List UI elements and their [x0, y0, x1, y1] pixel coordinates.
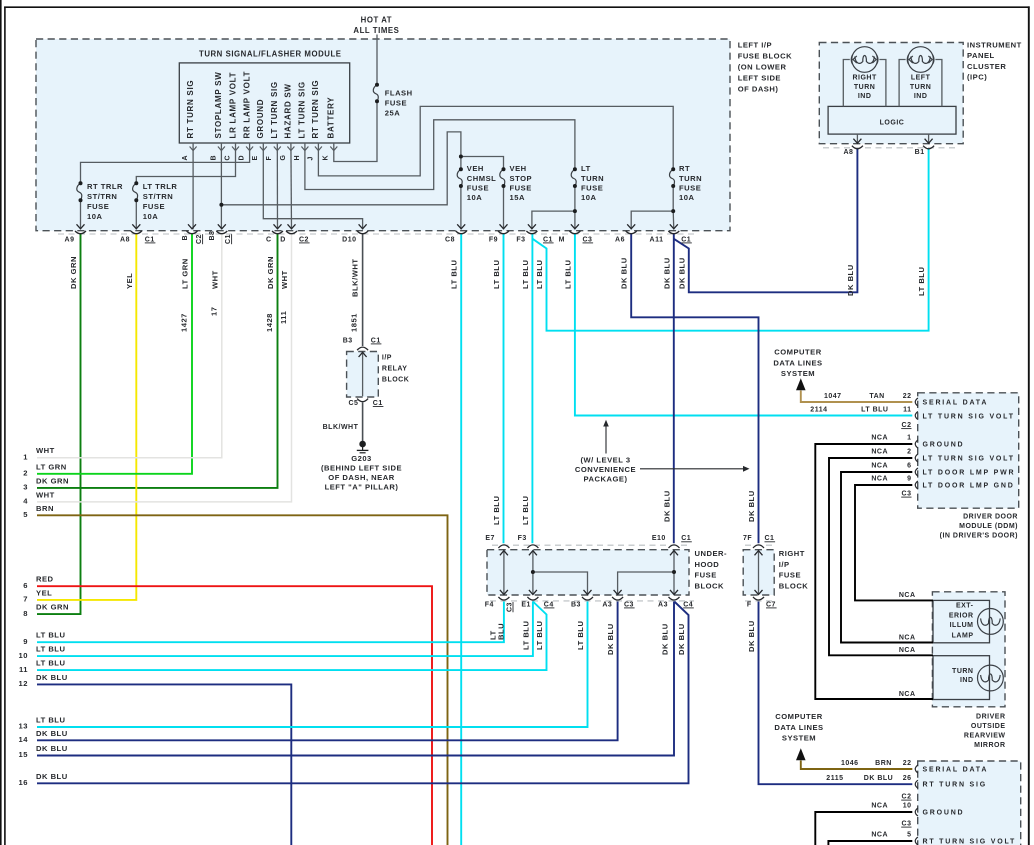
- svg-text:IND: IND: [858, 93, 872, 100]
- svg-text:C: C: [224, 155, 231, 161]
- svg-text:LT BLU: LT BLU: [861, 406, 888, 413]
- svg-text:RIGHT: RIGHT: [779, 549, 805, 558]
- svg-text:DK BLU: DK BLU: [661, 623, 670, 655]
- svg-text:SERIAL DATA: SERIAL DATA: [923, 767, 989, 774]
- svg-text:GROUND: GROUND: [923, 810, 965, 817]
- svg-text:DK BLU: DK BLU: [662, 257, 671, 289]
- svg-text:C4: C4: [544, 601, 554, 608]
- svg-text:10A: 10A: [143, 212, 158, 221]
- svg-text:A3: A3: [658, 601, 668, 608]
- svg-text:STOPLAMP SW: STOPLAMP SW: [214, 72, 223, 139]
- svg-text:111: 111: [279, 310, 288, 324]
- svg-text:2114: 2114: [810, 406, 827, 413]
- svg-text:DK BLU: DK BLU: [606, 623, 615, 655]
- svg-text:SYSTEM: SYSTEM: [782, 734, 816, 743]
- svg-text:NCA: NCA: [871, 434, 888, 441]
- svg-text:LT BLU: LT BLU: [576, 621, 585, 650]
- svg-text:C1: C1: [373, 400, 383, 407]
- svg-text:BRN: BRN: [36, 504, 54, 513]
- svg-text:BLU: BLU: [496, 623, 505, 640]
- svg-text:10: 10: [903, 802, 912, 809]
- svg-text:TURN: TURN: [854, 84, 875, 91]
- svg-text:OF DASH, NEAR: OF DASH, NEAR: [328, 473, 394, 482]
- svg-text:F4: F4: [485, 601, 494, 608]
- svg-text:LT TRLR: LT TRLR: [143, 182, 178, 191]
- svg-text:(IN DRIVER'S DOOR): (IN DRIVER'S DOOR): [940, 533, 1018, 540]
- svg-text:ST/TRN: ST/TRN: [143, 192, 173, 201]
- svg-text:EXT-: EXT-: [956, 603, 974, 610]
- svg-text:17: 17: [209, 307, 218, 316]
- svg-text:MIRROR: MIRROR: [974, 742, 1005, 749]
- svg-text:C1: C1: [681, 535, 691, 542]
- svg-text:2: 2: [907, 448, 911, 455]
- svg-text:5: 5: [907, 831, 911, 838]
- svg-text:11: 11: [19, 665, 28, 674]
- svg-text:FUSE: FUSE: [779, 571, 801, 580]
- svg-text:IND: IND: [960, 677, 974, 684]
- svg-text:TURN SIGNAL/FLASHER MODULE: TURN SIGNAL/FLASHER MODULE: [199, 50, 342, 59]
- svg-text:DK BLU: DK BLU: [36, 772, 68, 781]
- svg-text:VEH: VEH: [510, 164, 527, 173]
- svg-text:C1: C1: [225, 234, 232, 244]
- svg-text:GROUND: GROUND: [256, 99, 265, 139]
- svg-text:DK BLU: DK BLU: [663, 490, 672, 522]
- svg-text:LT BLU: LT BLU: [535, 621, 544, 650]
- svg-text:DRIVER: DRIVER: [976, 713, 1005, 720]
- svg-text:OF DASH): OF DASH): [738, 85, 779, 94]
- svg-text:FUSE: FUSE: [87, 202, 109, 211]
- svg-text:LT TURN SIG: LT TURN SIG: [298, 81, 307, 138]
- svg-text:DK BLU: DK BLU: [36, 673, 68, 682]
- svg-text:FUSE: FUSE: [467, 184, 489, 193]
- svg-text:HAZARD SW: HAZARD SW: [284, 83, 293, 138]
- svg-text:C3: C3: [507, 602, 514, 612]
- svg-text:A6: A6: [615, 236, 625, 243]
- svg-text:DRIVER DOOR: DRIVER DOOR: [963, 513, 1018, 520]
- svg-text:FUSE: FUSE: [581, 184, 603, 193]
- svg-text:BLOCK: BLOCK: [695, 581, 725, 590]
- svg-text:BRN: BRN: [875, 760, 892, 767]
- svg-text:BLK/WHT: BLK/WHT: [323, 424, 359, 431]
- svg-text:DK BLU: DK BLU: [864, 775, 893, 782]
- svg-text:(BEHIND LEFT SIDE: (BEHIND LEFT SIDE: [321, 464, 402, 473]
- svg-text:HOT AT: HOT AT: [361, 16, 392, 25]
- svg-text:LR LAMP VOLT: LR LAMP VOLT: [228, 72, 237, 139]
- svg-text:4: 4: [23, 497, 28, 506]
- svg-text:DATA LINES: DATA LINES: [774, 723, 823, 732]
- svg-text:UNDER-: UNDER-: [695, 549, 728, 558]
- svg-text:D10: D10: [342, 236, 356, 243]
- svg-text:WHT: WHT: [36, 490, 55, 499]
- svg-text:TURN: TURN: [952, 668, 973, 675]
- svg-text:5: 5: [23, 510, 28, 519]
- svg-text:WHT: WHT: [210, 270, 219, 289]
- svg-text:NCA: NCA: [871, 462, 888, 469]
- svg-text:13: 13: [19, 722, 28, 731]
- svg-text:F: F: [266, 156, 273, 161]
- svg-text:NCA: NCA: [871, 475, 888, 482]
- svg-text:NCA: NCA: [899, 647, 916, 654]
- svg-text:J: J: [307, 156, 314, 160]
- svg-text:LT BLU: LT BLU: [563, 260, 572, 289]
- svg-text:1428: 1428: [265, 313, 274, 332]
- svg-text:LT BLU: LT BLU: [36, 659, 65, 668]
- svg-text:LT BLU: LT BLU: [521, 260, 530, 289]
- svg-text:B8: B8: [209, 231, 216, 241]
- svg-text:RIGHT: RIGHT: [852, 75, 877, 82]
- svg-text:F3: F3: [516, 236, 525, 243]
- svg-text:LEFT "A" PILLAR): LEFT "A" PILLAR): [325, 483, 399, 492]
- svg-text:PACKAGE): PACKAGE): [584, 475, 628, 484]
- svg-text:DK GRN: DK GRN: [36, 476, 69, 485]
- svg-text:C3: C3: [583, 236, 593, 243]
- svg-text:LT BLU: LT BLU: [492, 260, 501, 289]
- svg-text:C2: C2: [902, 422, 912, 429]
- svg-text:LEFT I/P: LEFT I/P: [738, 41, 772, 50]
- svg-text:A11: A11: [650, 236, 664, 243]
- svg-text:ILLUM: ILLUM: [950, 622, 974, 629]
- svg-text:NCA: NCA: [871, 448, 888, 455]
- svg-text:COMPUTER: COMPUTER: [775, 712, 822, 721]
- svg-text:A: A: [182, 155, 189, 161]
- svg-text:LT BLU: LT BLU: [450, 260, 459, 289]
- svg-text:2115: 2115: [826, 775, 843, 782]
- svg-text:CHMSL: CHMSL: [467, 174, 497, 183]
- svg-text:LT GRN: LT GRN: [36, 462, 67, 471]
- svg-text:FUSE: FUSE: [143, 202, 165, 211]
- svg-text:GROUND: GROUND: [923, 442, 965, 449]
- svg-text:10: 10: [19, 651, 28, 660]
- svg-text:C2: C2: [299, 236, 309, 243]
- svg-text:F: F: [747, 601, 752, 608]
- svg-text:10A: 10A: [581, 193, 596, 202]
- svg-text:9: 9: [907, 475, 911, 482]
- svg-text:E10: E10: [652, 535, 666, 542]
- svg-text:B1: B1: [915, 149, 925, 156]
- svg-text:NCA: NCA: [899, 592, 916, 599]
- svg-text:G203: G203: [351, 454, 372, 463]
- svg-text:12: 12: [19, 679, 28, 688]
- svg-text:1851: 1851: [349, 313, 358, 332]
- svg-text:NCA: NCA: [871, 802, 888, 809]
- svg-text:FUSE: FUSE: [679, 184, 701, 193]
- svg-text:FLASH: FLASH: [385, 89, 413, 98]
- svg-text:OUTSIDE: OUTSIDE: [971, 723, 1006, 730]
- svg-text:C1: C1: [681, 236, 691, 243]
- svg-text:ALL TIMES: ALL TIMES: [353, 26, 399, 35]
- svg-text:RED: RED: [36, 575, 54, 584]
- svg-text:9: 9: [23, 637, 28, 646]
- svg-text:DK BLU: DK BLU: [677, 257, 686, 289]
- svg-text:TURN: TURN: [581, 174, 604, 183]
- svg-text:2: 2: [23, 469, 28, 478]
- svg-text:DK BLU: DK BLU: [36, 744, 68, 753]
- svg-text:RELAY: RELAY: [382, 365, 408, 372]
- svg-text:LT BLU: LT BLU: [36, 631, 65, 640]
- svg-text:15A: 15A: [510, 193, 525, 202]
- svg-text:26: 26: [903, 775, 912, 782]
- svg-text:YEL: YEL: [125, 273, 134, 289]
- svg-text:7: 7: [23, 595, 28, 604]
- svg-text:C1: C1: [543, 236, 553, 243]
- svg-text:CLUSTER: CLUSTER: [967, 62, 1006, 71]
- svg-text:1046: 1046: [841, 760, 859, 767]
- svg-text:TURN: TURN: [910, 84, 931, 91]
- svg-text:C: C: [266, 236, 272, 243]
- svg-text:A9: A9: [65, 236, 75, 243]
- svg-text:(ON LOWER: (ON LOWER: [738, 63, 787, 72]
- svg-text:DK BLU: DK BLU: [747, 620, 756, 652]
- svg-text:E: E: [252, 155, 259, 160]
- svg-text:IND: IND: [914, 93, 928, 100]
- svg-text:LT: LT: [581, 164, 591, 173]
- svg-text:F3: F3: [518, 535, 527, 542]
- svg-text:BLK/WHT: BLK/WHT: [350, 258, 359, 297]
- svg-text:C3: C3: [902, 821, 912, 828]
- svg-text:DK GRN: DK GRN: [36, 603, 69, 612]
- svg-text:1427: 1427: [180, 313, 189, 332]
- svg-text:C2: C2: [196, 234, 203, 244]
- svg-text:A3: A3: [602, 601, 612, 608]
- svg-text:LT BLU: LT BLU: [521, 496, 530, 525]
- svg-text:C4: C4: [683, 601, 693, 608]
- svg-text:6: 6: [23, 581, 28, 590]
- svg-text:DK BLU: DK BLU: [747, 490, 756, 522]
- svg-text:1: 1: [907, 434, 911, 441]
- svg-text:F9: F9: [489, 236, 498, 243]
- svg-text:10A: 10A: [87, 212, 102, 221]
- svg-text:LEFT SIDE: LEFT SIDE: [738, 74, 781, 83]
- svg-text:BLOCK: BLOCK: [779, 581, 809, 590]
- svg-text:E1: E1: [521, 601, 531, 608]
- svg-text:LT TURN SIG: LT TURN SIG: [270, 81, 279, 138]
- svg-text:NCA: NCA: [871, 831, 888, 838]
- svg-text:LT BLU: LT BLU: [36, 716, 65, 725]
- svg-text:LOGIC: LOGIC: [880, 120, 905, 127]
- svg-text:SYSTEM: SYSTEM: [781, 369, 815, 378]
- svg-text:C5: C5: [348, 400, 358, 407]
- svg-text:C8: C8: [445, 236, 455, 243]
- svg-text:RT TURN SIG: RT TURN SIG: [186, 80, 195, 139]
- svg-text:RT TURN SIG: RT TURN SIG: [923, 782, 988, 789]
- svg-text:M: M: [559, 236, 565, 243]
- svg-text:11: 11: [903, 406, 911, 413]
- svg-text:14: 14: [19, 735, 29, 744]
- svg-text:10A: 10A: [467, 193, 482, 202]
- svg-text:22: 22: [903, 760, 912, 767]
- svg-text:WHT: WHT: [36, 446, 55, 455]
- svg-text:D: D: [239, 155, 246, 161]
- svg-text:C3: C3: [624, 601, 634, 608]
- svg-text:15: 15: [19, 750, 29, 759]
- svg-text:7F: 7F: [743, 535, 752, 542]
- svg-text:RT TURN SIG VOLT: RT TURN SIG VOLT: [923, 839, 1017, 845]
- svg-text:FUSE BLOCK: FUSE BLOCK: [738, 52, 792, 61]
- svg-text:(W/ LEVEL 3: (W/ LEVEL 3: [580, 456, 630, 465]
- svg-text:DK BLU: DK BLU: [846, 264, 855, 296]
- svg-text:K: K: [323, 155, 330, 161]
- svg-text:DK GRN: DK GRN: [69, 256, 78, 289]
- svg-text:FUSE: FUSE: [695, 571, 717, 580]
- svg-text:C1: C1: [145, 236, 155, 243]
- svg-text:NCA: NCA: [899, 634, 916, 641]
- svg-text:LT BLU: LT BLU: [521, 621, 530, 650]
- svg-text:C3: C3: [902, 491, 912, 498]
- svg-text:I/P: I/P: [779, 560, 790, 569]
- svg-text:A8: A8: [843, 149, 853, 156]
- svg-text:DK BLU: DK BLU: [620, 257, 629, 289]
- svg-text:LT BLU: LT BLU: [917, 267, 926, 296]
- svg-text:LT BLU: LT BLU: [492, 496, 501, 525]
- svg-text:WHT: WHT: [280, 270, 289, 289]
- svg-text:6: 6: [907, 462, 911, 469]
- svg-text:YEL: YEL: [36, 588, 52, 597]
- svg-text:LT BLU: LT BLU: [535, 260, 544, 289]
- svg-text:B: B: [182, 235, 189, 241]
- svg-text:SERIAL DATA: SERIAL DATA: [923, 399, 989, 406]
- svg-text:VEH: VEH: [467, 164, 484, 173]
- svg-text:I/P: I/P: [382, 354, 392, 361]
- svg-text:RT TURN SIG: RT TURN SIG: [311, 80, 320, 139]
- svg-text:COMPUTER: COMPUTER: [774, 348, 821, 357]
- svg-text:LT DOOR LMP PWR: LT DOOR LMP PWR: [923, 470, 1016, 477]
- svg-text:FUSE: FUSE: [385, 99, 407, 108]
- svg-text:TURN: TURN: [679, 174, 702, 183]
- svg-text:BLOCK: BLOCK: [382, 376, 409, 383]
- svg-text:C1: C1: [765, 535, 775, 542]
- svg-text:LT DOOR LMP GND: LT DOOR LMP GND: [923, 483, 1015, 490]
- svg-text:LT TURN SIG VOLT: LT TURN SIG VOLT: [923, 413, 1015, 420]
- svg-text:STOP: STOP: [510, 174, 533, 183]
- svg-text:25A: 25A: [385, 108, 400, 117]
- svg-text:ERIOR: ERIOR: [949, 612, 974, 619]
- svg-text:RT: RT: [679, 164, 690, 173]
- svg-text:LT GRN: LT GRN: [181, 258, 190, 289]
- svg-text:C1: C1: [371, 337, 381, 344]
- svg-text:REARVIEW: REARVIEW: [964, 732, 1006, 739]
- svg-text:1047: 1047: [824, 393, 842, 400]
- svg-text:C7: C7: [766, 601, 776, 608]
- svg-text:3: 3: [23, 483, 28, 492]
- svg-text:8: 8: [23, 609, 28, 618]
- svg-text:A8: A8: [120, 236, 130, 243]
- svg-text:TAN: TAN: [869, 393, 884, 400]
- svg-text:LEFT: LEFT: [911, 75, 931, 82]
- svg-text:C2: C2: [902, 794, 912, 801]
- svg-text:HOOD: HOOD: [695, 560, 720, 569]
- svg-text:CONVENIENCE: CONVENIENCE: [575, 465, 636, 474]
- svg-text:DATA LINES: DATA LINES: [773, 358, 822, 367]
- svg-text:DK BLU: DK BLU: [36, 729, 68, 738]
- svg-text:16: 16: [19, 778, 28, 787]
- svg-text:22: 22: [903, 393, 912, 400]
- svg-text:NCA: NCA: [899, 691, 916, 698]
- svg-text:RT TRLR: RT TRLR: [87, 182, 123, 191]
- svg-text:DK BLU: DK BLU: [677, 623, 686, 655]
- svg-text:D: D: [280, 236, 286, 243]
- svg-text:LT TURN SIG VOLT: LT TURN SIG VOLT: [923, 456, 1015, 463]
- svg-text:PANEL: PANEL: [967, 51, 995, 60]
- svg-text:FUSE: FUSE: [510, 184, 532, 193]
- svg-text:ST/TRN: ST/TRN: [87, 192, 117, 201]
- svg-text:B: B: [210, 155, 217, 161]
- svg-text:DK GRN: DK GRN: [266, 256, 275, 289]
- svg-text:10A: 10A: [679, 193, 694, 202]
- svg-text:INSTRUMENT: INSTRUMENT: [967, 41, 1022, 50]
- svg-text:G: G: [280, 155, 287, 161]
- svg-text:(IPC): (IPC): [967, 73, 987, 82]
- svg-text:B3: B3: [343, 337, 353, 344]
- svg-text:1: 1: [23, 452, 28, 461]
- svg-text:LAMP: LAMP: [952, 633, 974, 640]
- svg-text:RR LAMP VOLT: RR LAMP VOLT: [242, 71, 251, 139]
- svg-text:BATTERY: BATTERY: [327, 97, 336, 139]
- svg-text:LT BLU: LT BLU: [36, 645, 65, 654]
- svg-text:E7: E7: [485, 535, 495, 542]
- svg-text:H: H: [294, 155, 301, 161]
- svg-text:MODULE (DDM): MODULE (DDM): [959, 523, 1018, 530]
- svg-text:B3: B3: [571, 601, 581, 608]
